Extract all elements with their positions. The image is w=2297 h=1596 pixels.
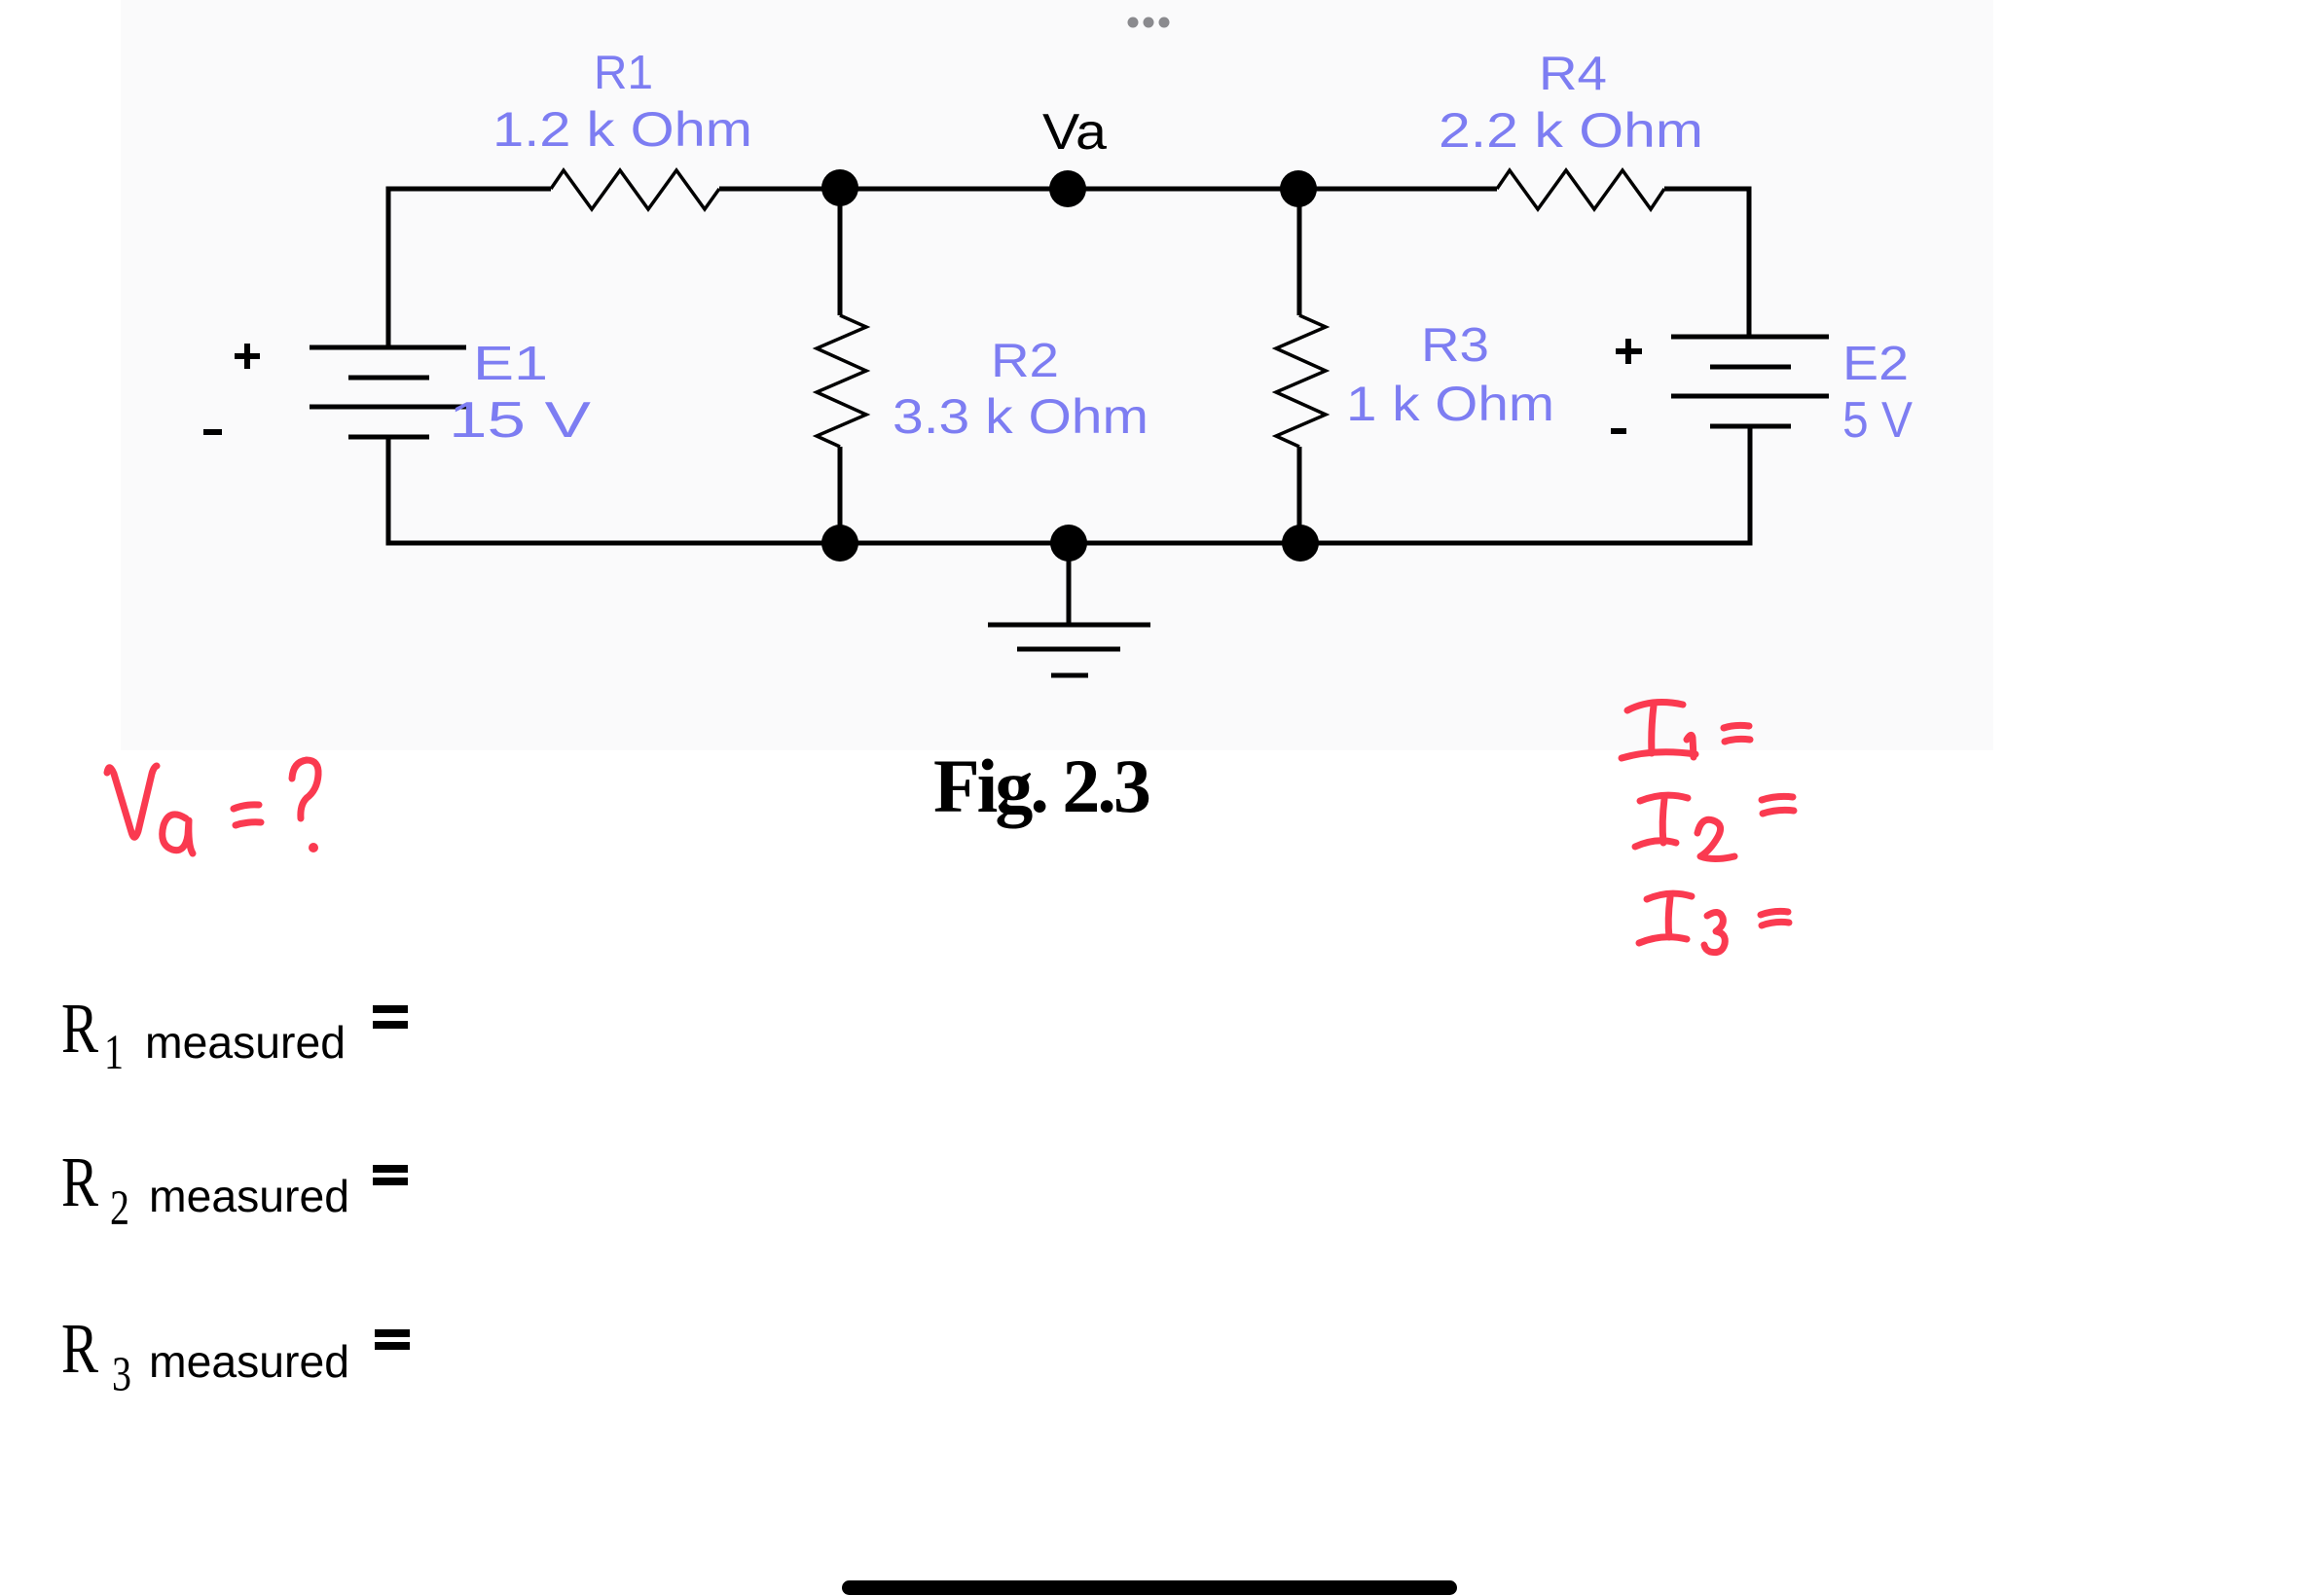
svg-text:2: 2: [110, 1181, 129, 1236]
svg-text:measured: measured: [149, 1336, 349, 1387]
svg-text:E2: E2: [1842, 338, 1909, 390]
svg-text:Fig. 2.3: Fig. 2.3: [933, 744, 1149, 828]
svg-text:E1: E1: [473, 338, 548, 390]
svg-text:3.3 k Ohm: 3.3 k Ohm: [893, 389, 1148, 444]
svg-text:5 V: 5 V: [1842, 392, 1913, 449]
svg-text:1: 1: [104, 1026, 124, 1080]
svg-text:measured: measured: [145, 1017, 346, 1068]
svg-text:3: 3: [112, 1348, 131, 1402]
svg-text:R: R: [61, 1309, 98, 1388]
svg-text:R2: R2: [991, 335, 1059, 387]
svg-text:2.2 k Ohm: 2.2 k Ohm: [1439, 103, 1703, 158]
svg-text:15 V: 15 V: [449, 392, 591, 449]
svg-text:1 k Ohm: 1 k Ohm: [1346, 377, 1554, 431]
svg-text:R: R: [61, 989, 98, 1068]
svg-text:R4: R4: [1539, 48, 1607, 100]
svg-text:Va: Va: [1042, 104, 1107, 161]
svg-text:R3: R3: [1421, 319, 1489, 372]
svg-text:1.2 k Ohm: 1.2 k Ohm: [492, 102, 752, 157]
svg-text:measured: measured: [149, 1171, 349, 1221]
svg-text:R1: R1: [594, 47, 653, 99]
svg-text:R: R: [61, 1143, 98, 1221]
